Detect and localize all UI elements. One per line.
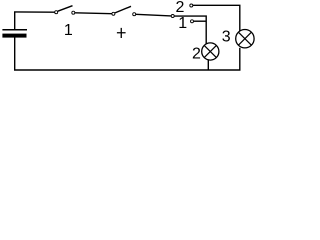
label switch +	[117, 28, 126, 38]
wire contact2 to top-right corner	[193, 5, 240, 32]
wire bottom rail	[14, 69, 241, 71]
wire pole to right corner	[174, 16, 206, 43]
selector pole contact	[171, 15, 174, 18]
wire between S1 and S2	[75, 12, 112, 15]
switch S1 left contact	[55, 11, 58, 14]
selector contact 1	[191, 20, 194, 23]
switch S2 right contact	[133, 13, 136, 16]
svg-text:3: 3	[222, 28, 231, 45]
svg-text:2: 2	[192, 45, 201, 62]
battery positive plate	[2, 29, 27, 31]
wire battery bottom lead	[14, 38, 16, 71]
wire contact1 stub	[194, 20, 206, 22]
lamp L2 cross	[204, 45, 216, 57]
lamp L3 circle	[236, 30, 254, 48]
wire S2 to selector pole	[136, 14, 171, 16]
lamp L3 cross	[238, 32, 251, 45]
switch S1 right contact	[72, 11, 75, 14]
switch S2 left contact	[112, 12, 115, 15]
wire top rail left segment	[14, 11, 55, 13]
battery negative plate	[2, 34, 26, 38]
switch S2 blade	[115, 6, 131, 13]
wire top-left vertical from battery to top rail	[14, 12, 16, 29]
svg-text:1: 1	[64, 22, 73, 39]
lamp L2 circle	[202, 43, 219, 60]
wire lamp L2 bottom lead	[207, 60, 209, 70]
switch S1 blade	[58, 6, 73, 12]
wire lamp L3 bottom lead	[239, 48, 241, 70]
svg-text:1: 1	[178, 15, 187, 32]
svg-text:2: 2	[176, 0, 185, 16]
selector contact 2	[190, 4, 193, 7]
